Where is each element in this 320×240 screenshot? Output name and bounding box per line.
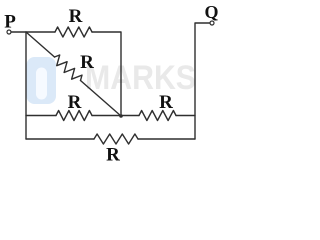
svg-text:R: R xyxy=(69,6,83,27)
svg-text:R: R xyxy=(159,92,173,113)
svg-text:R: R xyxy=(106,145,120,164)
svg-text:R: R xyxy=(68,92,82,113)
svg-text:R: R xyxy=(80,52,94,73)
svg-text:MARKS: MARKS xyxy=(85,59,196,97)
svg-text:Q: Q xyxy=(204,2,218,22)
svg-text:P: P xyxy=(4,12,16,33)
